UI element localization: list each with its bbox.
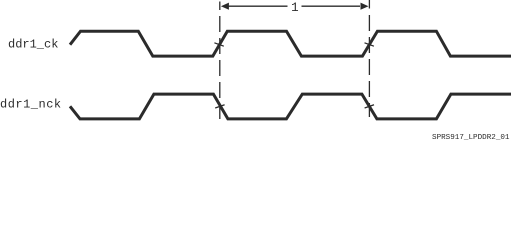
- node X tick nck crossing 2: [365, 105, 374, 108]
- node X tick nck crossing 1: [215, 105, 224, 108]
- wire ddr1_ck waveform: [70, 31, 511, 56]
- dashed cursor line left (node crossing 1): [219, 2, 221, 120]
- node X tick ck crossing 1: [214, 43, 223, 46]
- node X tick ck crossing 2: [365, 43, 374, 46]
- dashed cursor line right (node crossing 2): [368, 0, 370, 117]
- dimension arrow 1 (clock period measure): [221, 1, 369, 15]
- svg-text:SPRS917_LPDDR2_01: SPRS917_LPDDR2_01: [432, 134, 510, 142]
- wire ddr1_nck waveform: [70, 94, 511, 119]
- svg-text:1: 1: [291, 1, 299, 15]
- svg-text:ddr1_nck: ddr1_nck: [0, 97, 62, 111]
- svg-text:ddr1_ck: ddr1_ck: [8, 38, 58, 52]
